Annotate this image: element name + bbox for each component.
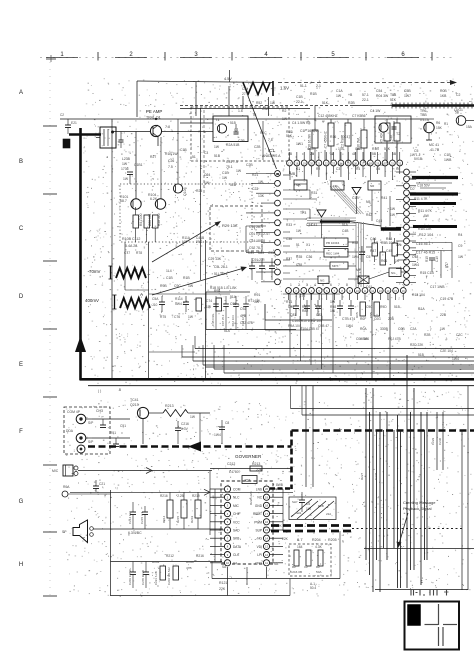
svg-text:R1B: R1B (372, 147, 379, 151)
svg-text:NC: NC (257, 496, 262, 500)
svg-text:MB: MB (296, 183, 301, 187)
capacitor C30 (251, 258, 253, 266)
IC2 pin 19 (NC) (263, 494, 269, 500)
wire (169, 518, 171, 529)
svg-text:29.1: 29.1 (196, 240, 203, 244)
capacitor C31 (261, 258, 263, 266)
wire (180, 122, 213, 124)
svg-text:22K: 22K (282, 537, 289, 541)
svg-text:6.3/4/BC: 6.3/4/BC (128, 531, 142, 535)
svg-text:C: C (19, 226, 24, 232)
cap C101 (120, 132, 122, 141)
svg-text:1.17A: 1.17A (420, 118, 430, 122)
resistor (vert) (360, 302, 366, 316)
wire (149, 412, 163, 414)
wire (289, 166, 291, 174)
svg-text:14: 14 (265, 536, 268, 540)
resistor R105 (vert) (133, 215, 139, 228)
wire (270, 562, 283, 564)
svg-text:R202: R202 (152, 560, 160, 564)
capacitor (132, 566, 134, 572)
svg-text:C46: C46 (370, 237, 376, 241)
svg-text:J10: J10 (152, 303, 157, 307)
svg-text:C0B: C0B (398, 327, 405, 331)
IC2 pin 1 (COM) (224, 486, 230, 492)
svg-text:R1B 51B 1-B 1-BK: R1B 51B 1-B 1-BK (210, 286, 237, 290)
wire (135, 132, 137, 200)
wire (92, 418, 130, 420)
svg-text:51A: 51A (342, 223, 349, 227)
svg-text:C1B: C1B (352, 196, 359, 200)
wire (270, 496, 283, 498)
wire (210, 554, 224, 556)
svg-text:REC 1W4: REC 1W4 (326, 252, 340, 256)
svg-text:R4: R4 (356, 167, 360, 171)
svg-text:COM: COM (233, 488, 241, 492)
svg-text:51B: 51B (230, 183, 237, 187)
svg-text:C54: C54 (376, 89, 382, 93)
capacitor (317, 300, 319, 306)
svg-text:C2: C2 (60, 113, 64, 117)
svg-text:R2D 22K: R2D 22K (410, 343, 424, 347)
grid tick (43, 396, 57, 398)
svg-text:51K: 51K (322, 101, 329, 105)
svg-text:R18 104: R18 104 (412, 293, 425, 297)
resistor L5 (vert) (394, 123, 400, 141)
svg-text:1W: 1W (122, 162, 128, 166)
waveform sawtooth 400mV (120, 298, 150, 308)
svg-text:FM: FM (333, 184, 338, 188)
svg-text:SLP: SLP (292, 500, 298, 504)
wire (294, 183, 307, 185)
signal bar (bold) (381, 227, 401, 230)
svg-text:51K: 51K (286, 134, 293, 138)
svg-text:R121: R121 (219, 581, 227, 585)
svg-text:C216: C216 (181, 422, 189, 426)
svg-text:GND: GND (255, 504, 263, 508)
wire (310, 294, 312, 366)
svg-text:C1B: C1B (166, 276, 173, 280)
wire (78, 470, 212, 472)
svg-text:NG: NG (391, 271, 396, 275)
svg-text:CH1: CH1 (233, 512, 240, 516)
svg-text:0.7: 0.7 (297, 537, 303, 542)
svg-text:C3: C3 (336, 167, 340, 171)
wire (365, 388, 367, 560)
svg-text:51: 51 (192, 155, 196, 159)
svg-text:4: 4 (314, 283, 316, 287)
wire (149, 293, 230, 295)
transistor Q213 (137, 407, 148, 418)
wire (412, 242, 452, 244)
svg-text:C36: C36 (306, 255, 312, 259)
svg-text:C1B: C1B (222, 171, 229, 175)
svg-text:C29 13K: C29 13K (208, 257, 222, 261)
shielded cable (hatched) (392, 104, 474, 107)
svg-text:1KB: 1KB (440, 94, 447, 98)
svg-text:R9B: R9B (160, 284, 167, 288)
capacitor (361, 246, 363, 252)
IC1 top pin row (287, 160, 293, 166)
block box PB EQ (324, 238, 348, 247)
svg-text:SP: SP (62, 530, 67, 534)
svg-text:1W4: 1W4 (346, 324, 353, 328)
capacitor (132, 506, 134, 512)
annotation arrow (399, 513, 408, 544)
wire (124, 260, 126, 290)
capacitor C: (299, 499, 305, 501)
wire (410, 412, 412, 570)
IC2 pin 9 (CLK) (224, 552, 230, 558)
svg-text:7.5: 7.5 (268, 138, 273, 142)
svg-text:R2: R2 (282, 109, 286, 113)
IC2 pin 4 (CH1) (224, 510, 230, 516)
svg-text:1W: 1W (282, 117, 288, 121)
wire (270, 537, 283, 539)
svg-text:C95: C95 (288, 305, 294, 309)
svg-text:C17: C17 (344, 135, 350, 139)
svg-text:1L4: 1L4 (166, 269, 172, 273)
wire (270, 529, 283, 531)
wire (210, 513, 224, 515)
wire (229, 70, 231, 82)
svg-text:R216: R216 (160, 494, 168, 498)
svg-text:C212: C212 (227, 462, 235, 466)
sub-circuit outline (206, 291, 250, 293)
svg-text:PWM: PWM (254, 520, 262, 524)
svg-text:N5: N5 (366, 200, 370, 204)
svg-text:C34: C34 (306, 223, 312, 227)
jack J2 (76, 433, 86, 443)
wire (137, 81, 273, 83)
svg-text:1W: 1W (396, 243, 402, 247)
signal path (thick dashed) (292, 429, 474, 432)
wire (262, 121, 264, 160)
svg-text:C31: C31 (296, 511, 302, 515)
svg-text:1W: 1W (458, 255, 464, 259)
resistor (vert) (196, 298, 202, 311)
transistor Q3 (424, 122, 434, 132)
wire (182, 356, 474, 358)
svg-text:12: 12 (380, 163, 384, 167)
svg-text:Creeting Message: Creeting Message (403, 500, 436, 505)
svg-text:VCC: VCC (233, 520, 240, 524)
svg-text:F: F (19, 429, 23, 435)
wire (210, 521, 224, 523)
svg-text:GOVERNER: GOVERNER (235, 454, 262, 459)
svg-text:R9D: R9D (380, 305, 387, 309)
svg-text:C1B1: C1B1 (134, 163, 143, 167)
capacitor (185, 296, 187, 302)
svg-text:C203 3470C: C203 3470C (128, 569, 132, 585)
junction (155, 118, 157, 120)
annotation pointer (400mV) (152, 268, 244, 295)
svg-text:13K: 13K (258, 194, 265, 198)
component box (dashed) R29 (210, 206, 262, 251)
svg-text:C230: C230 (438, 437, 442, 445)
grid ruler top baseline (40, 57, 455, 59)
svg-text:R8: R8 (306, 121, 310, 125)
svg-text:C72: C72 (299, 294, 305, 298)
cap (429, 257, 435, 259)
svg-text:X1: X1 (306, 243, 310, 247)
svg-text:+B: +B (348, 93, 353, 97)
signal path (thick dashed) (88, 445, 292, 448)
cap C15 (393, 121, 395, 127)
svg-text:22B: 22B (440, 313, 447, 317)
svg-text:1W: 1W (123, 177, 129, 181)
svg-text:1736: 1736 (121, 167, 129, 171)
svg-text:C204 W0.522: C204 W0.522 (167, 567, 171, 585)
svg-text:R1B: R1B (183, 276, 190, 280)
wire (389, 232, 391, 240)
svg-text:5B: 5B (455, 111, 459, 115)
registration cross h (425, 624, 439, 626)
wire (224, 372, 474, 374)
svg-text:R4: R4 (458, 233, 462, 237)
diagonal pointer line (coil to IC1) (248, 96, 277, 169)
grid tick (43, 193, 57, 195)
svg-text:T1: T1 (215, 118, 219, 122)
svg-text:A: A (140, 292, 143, 297)
svg-text:( ): ( ) (98, 389, 101, 393)
bus stub (thick) (69, 133, 101, 136)
wire (466, 120, 474, 122)
cap C103 (127, 171, 133, 173)
amp triangle (352, 188, 361, 195)
wire (dashed) (180, 105, 350, 107)
svg-text:8WB: 8WB (276, 483, 283, 487)
svg-text:CPO: CPO (255, 561, 262, 565)
wire (436, 412, 438, 470)
wire (142, 419, 144, 444)
wire mark (204, 489, 210, 495)
block box (368, 181, 381, 190)
svg-text:C4B 0.99: C4B 0.99 (211, 314, 215, 326)
svg-text:C97: C97 (316, 305, 322, 309)
svg-text:PE AMP: PE AMP (146, 109, 162, 114)
block box (318, 276, 329, 284)
wire (383, 430, 385, 548)
svg-text:C8B: C8B (355, 147, 362, 151)
svg-text:C9B 47: C9B 47 (318, 324, 329, 328)
svg-text:R1A: R1A (418, 307, 425, 311)
svg-text:1W7: 1W7 (404, 94, 411, 98)
svg-text:70mV: 70mV (89, 269, 101, 274)
wire (112, 131, 151, 133)
wire (193, 360, 474, 362)
IC1 right pin column (404, 169, 410, 175)
svg-text:C3B: C3B (262, 107, 269, 111)
svg-text:E: E (19, 362, 23, 368)
svg-text:R0A: R0A (63, 485, 70, 489)
transistor Q105 (173, 184, 182, 193)
signal path (thick dashed) (271, 530, 352, 533)
IC2 pin 2 (NLC) (224, 494, 230, 500)
svg-text:R04 3W: R04 3W (376, 94, 389, 98)
svg-text:C31: C31 (248, 251, 254, 255)
transistor Q4 (right edge) (456, 116, 466, 126)
wire (210, 496, 224, 498)
svg-text:R20B: R20B (186, 560, 194, 564)
wire (210, 468, 292, 470)
wire (148, 242, 150, 379)
svg-text:M/C: M/C (52, 469, 59, 473)
wire (397, 415, 399, 588)
svg-text:G: G (19, 499, 24, 505)
jack J1 (76, 414, 86, 424)
svg-text:R52: R52 (352, 241, 358, 245)
svg-text:3: 3 (306, 283, 308, 287)
component box (dotted) (120, 184, 252, 242)
svg-text:C18: C18 (412, 255, 418, 259)
wire (157, 137, 159, 147)
svg-text:L23B: L23B (122, 157, 131, 161)
svg-text:1W: 1W (258, 180, 264, 184)
svg-text:C16 28-1: C16 28-1 (249, 225, 263, 229)
svg-text:R11 4.7K: R11 4.7K (414, 197, 428, 201)
svg-text:50A: 50A (316, 570, 322, 574)
svg-text:C2: C2 (456, 93, 460, 97)
svg-text:1: 1 (290, 283, 292, 287)
svg-text:C8: C8 (225, 421, 229, 425)
resistor (vert) (318, 550, 323, 566)
svg-text:C45: C45 (386, 249, 392, 253)
signal bar (bold) (410, 202, 456, 205)
svg-text:7.5: 7.5 (168, 165, 173, 169)
svg-text:C221 6.2B: C221 6.2B (154, 571, 158, 585)
svg-text:T8B: T8B (390, 93, 397, 97)
signal bar (bold) (320, 220, 350, 223)
grid tick (231, 52, 233, 61)
speaker terminals (90, 527, 94, 531)
resistor (vert) (160, 566, 166, 580)
crossover box (289, 497, 336, 520)
transformer T1 box (213, 116, 248, 142)
svg-text:R05: R05 (355, 312, 359, 318)
svg-text:R2B: R2B (424, 333, 431, 337)
svg-text:-41.7B: -41.7B (429, 148, 440, 152)
svg-text:C9C: C9C (174, 284, 181, 288)
block box (389, 268, 401, 277)
wire (282, 489, 284, 531)
svg-text:MC 41: MC 41 (429, 143, 439, 147)
svg-text:R214: R214 (162, 515, 166, 523)
svg-text:C76: C76 (174, 315, 180, 319)
svg-text:C18 50V: C18 50V (417, 184, 431, 188)
svg-text:C31 7.5: C31 7.5 (226, 160, 238, 164)
svg-text:R1B: R1B (310, 92, 317, 96)
wire (400, 430, 402, 588)
jack J3 (77, 445, 85, 453)
wire (371, 190, 373, 221)
transistor Q2 (379, 123, 388, 132)
svg-text:C2B: C2B (254, 145, 261, 149)
wire (283, 174, 290, 176)
svg-text:R2: R2 (316, 167, 320, 171)
svg-text:C17 46 R15: C17 46 R15 (416, 251, 435, 255)
resistor (vert) (380, 252, 386, 265)
svg-text:R25: R25 (196, 189, 202, 193)
IC2 pin 18 (GND) (263, 502, 269, 508)
wire (332, 294, 334, 374)
svg-text:NG: NG (320, 279, 325, 283)
svg-text:CH3: CH3 (96, 409, 103, 413)
svg-text:CLK: CLK (233, 553, 240, 557)
signal path (thick dashed vertical) (290, 431, 293, 490)
jack PB (62, 491, 68, 497)
wire (289, 152, 291, 160)
svg-text:1BB: 1BB (410, 177, 417, 181)
svg-text:R215: R215 (176, 515, 180, 523)
wire (376, 430, 378, 560)
waveform bracket (114, 295, 116, 309)
svg-text:R51 100: R51 100 (139, 213, 143, 226)
svg-text:75.1: 75.1 (226, 165, 233, 169)
waveform bracket (110, 266, 112, 279)
signal bar (bold) (413, 225, 457, 228)
wire (413, 388, 415, 570)
wire (270, 545, 283, 547)
svg-text:C104 R10 6.3W 104: C104 R10 6.3W 104 (292, 319, 322, 323)
resistor R213b (250, 466, 262, 471)
wire (206, 366, 474, 368)
svg-text:C77: C77 (124, 251, 130, 255)
svg-text:4.3K: 4.3K (315, 545, 323, 549)
wire (245, 226, 247, 252)
wire (305, 386, 307, 487)
svg-text:5W4.7: 5W4.7 (175, 302, 185, 306)
svg-text:C7 K5B6: C7 K5B6 (352, 114, 366, 118)
svg-text:AN8389S A: AN8389S A (262, 154, 281, 158)
svg-text:C5B: C5B (404, 89, 411, 93)
component box (dashed) around T1 (191, 107, 289, 161)
svg-text:C92: C92 (240, 307, 246, 311)
svg-text:R0B: R0B (440, 89, 447, 93)
wire (264, 304, 266, 330)
grid tick (43, 328, 57, 330)
svg-text:R52: R52 (256, 101, 262, 105)
svg-text:C5: C5 (366, 255, 370, 259)
svg-text:47B: 47B (186, 566, 192, 570)
svg-text:C1B: C1B (296, 95, 303, 99)
grid tick (43, 595, 57, 597)
svg-text:19: 19 (265, 495, 268, 499)
svg-text:C5: C5 (376, 167, 380, 171)
IC2 pin 14 (-NG) (263, 535, 269, 541)
wire bundle (ribbon) (307, 217, 356, 219)
svg-text:C5A: C5A (152, 297, 159, 301)
transistor Q104 (155, 199, 165, 209)
svg-text:R41: R41 (381, 196, 387, 200)
capacitor (225, 296, 227, 304)
svg-text:R0A: R0A (360, 327, 367, 331)
resistor (vert) (372, 243, 378, 256)
svg-text:C270 R21B: C270 R21B (141, 570, 145, 585)
svg-text:R31: R31 (311, 191, 317, 195)
IC2 pin 8 (DATA) (224, 543, 230, 549)
wire (195, 348, 474, 350)
svg-text:C12 455KHZ: C12 455KHZ (318, 114, 338, 118)
svg-text:C51: C51 (120, 424, 126, 428)
block box (331, 181, 344, 190)
svg-text:8: 8 (346, 283, 348, 287)
wire (160, 137, 162, 199)
svg-text:C24: C24 (204, 173, 210, 177)
wire (283, 198, 317, 200)
wire (228, 86, 230, 116)
svg-text:S/P: S/P (88, 421, 94, 425)
